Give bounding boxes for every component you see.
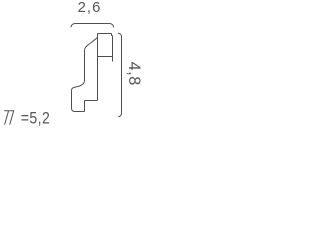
slant symbol stroke 2 xyxy=(9,111,13,125)
profile bottom edge xyxy=(75,111,85,113)
moulding profile technical drawing xyxy=(0,0,150,142)
profile wall stub below shelf xyxy=(112,57,114,62)
right dimension line xyxy=(118,33,121,117)
slant symbol stroke 1 xyxy=(4,111,8,125)
profile bottom step horizontal xyxy=(85,100,98,102)
profile top-right step xyxy=(112,34,113,36)
profile bottom step vertical xyxy=(84,101,86,112)
profile lower s-curve xyxy=(72,81,85,90)
profile inner back vertical xyxy=(97,34,99,101)
profile foot vertical xyxy=(71,90,73,108)
svg-text:4,8: 4,8 xyxy=(125,62,143,86)
profile wall vertical xyxy=(112,36,114,57)
profile foot corner arc xyxy=(72,109,75,112)
svg-text:2,6: 2,6 xyxy=(78,0,102,16)
svg-text:=5,2: =5,2 xyxy=(21,109,50,127)
top dimension line xyxy=(71,24,114,28)
profile ogee curve xyxy=(85,37,98,50)
profile face vertical xyxy=(84,50,86,81)
profile shelf xyxy=(98,56,113,58)
profile top surface xyxy=(98,33,112,35)
